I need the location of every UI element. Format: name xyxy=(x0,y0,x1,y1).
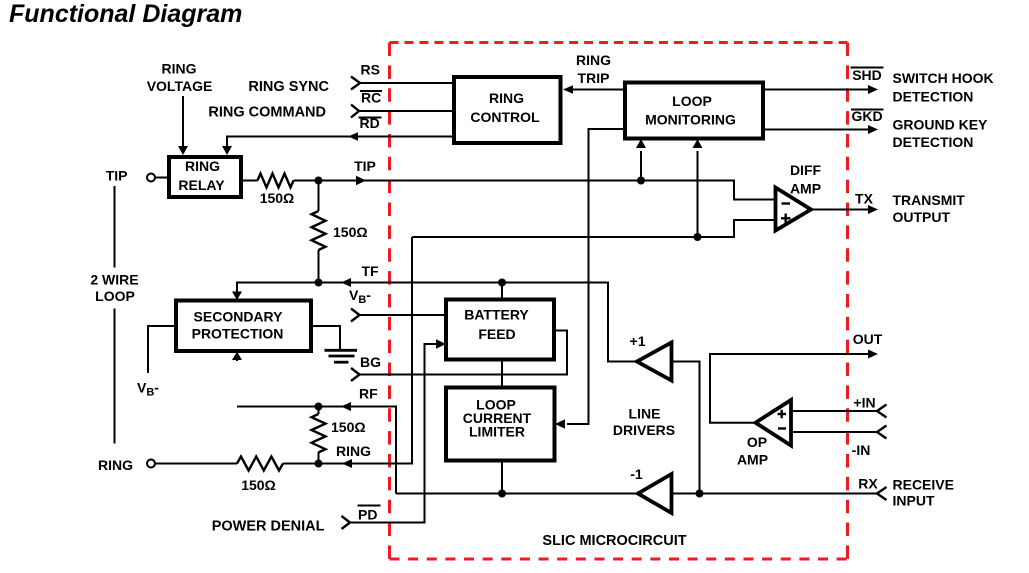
arrowhead tip sense into loop monitoring xyxy=(636,139,646,148)
block LOOP CURRENT LIMITER xyxy=(446,388,555,461)
wire tip sense up to loop monitoring xyxy=(640,151,642,181)
chevron RS input xyxy=(351,77,360,90)
svg-text:OUTPUT: OUTPUT xyxy=(893,209,951,225)
svg-text:150Ω: 150Ω xyxy=(260,190,295,206)
diff amp plus sign xyxy=(781,217,791,219)
svg-text:TRANSMIT: TRANSMIT xyxy=(893,192,966,208)
wire SHD output xyxy=(763,89,869,91)
chevron PD input xyxy=(342,516,351,529)
diff amp minus sign xyxy=(782,202,791,204)
arrowhead ring voltage into relay xyxy=(178,146,188,155)
svg-text:150Ω: 150Ω xyxy=(331,419,366,435)
arrowhead RF mid-wire xyxy=(341,402,351,411)
junction TF/battery feed xyxy=(498,279,506,287)
svg-text:LOOP: LOOP xyxy=(95,288,135,304)
junction ring sense/loop monitoring xyxy=(694,233,702,241)
wire RF line from -1 driver to secondary protection xyxy=(237,407,396,494)
svg-text:DETECTION: DETECTION xyxy=(893,134,974,150)
chevron RC input xyxy=(351,105,359,118)
wire loop monitoring to loop current limiter xyxy=(567,129,625,424)
arrowhead RD into relay xyxy=(222,146,232,155)
wire ring sense to diff amp plus input xyxy=(412,220,775,237)
overline RC xyxy=(360,90,382,92)
op-amp OP AMP xyxy=(756,400,792,446)
buffer -1 line driver xyxy=(638,474,672,513)
wire op amp -IN xyxy=(791,431,877,433)
overline GKD xyxy=(851,109,884,111)
wire stub RF shunt resistor to RING line xyxy=(318,407,320,464)
op-amp DIFF AMP xyxy=(776,188,812,231)
svg-text:RING: RING xyxy=(162,61,197,77)
junction TIP/shunt resistor xyxy=(315,177,323,185)
arrowhead TIP mid-wire xyxy=(356,176,366,186)
wire TIP line from relay through resistor to diff amp minus input xyxy=(242,181,776,200)
svg-text:LOOP: LOOP xyxy=(672,93,712,109)
svg-text:TRIP: TRIP xyxy=(578,70,610,86)
junction RING/shunt resistor xyxy=(315,460,323,468)
svg-text:RING: RING xyxy=(185,158,220,174)
arrowhead OUT xyxy=(868,350,878,359)
svg-text:VOLTAGE: VOLTAGE xyxy=(147,78,213,94)
svg-text:Functional Diagram: Functional Diagram xyxy=(9,0,242,28)
svg-text:RING: RING xyxy=(489,90,524,106)
wire TIP terminal to ring relay xyxy=(156,177,168,179)
chevron -IN input xyxy=(877,426,887,439)
svg-text:+1: +1 xyxy=(630,333,646,349)
svg-text:2 WIRE: 2 WIRE xyxy=(90,272,138,288)
chevron RX input xyxy=(877,487,887,500)
svg-text:FEED: FEED xyxy=(478,326,515,342)
arrowhead ring sense into loop monitoring xyxy=(693,139,703,148)
svg-text:AMP: AMP xyxy=(790,181,821,197)
svg-text:TIP: TIP xyxy=(106,168,128,184)
svg-text:OUT: OUT xyxy=(853,331,883,347)
svg-text:RING: RING xyxy=(576,52,611,68)
arrowhead RD mid-wire xyxy=(348,132,358,141)
ground symbol xyxy=(325,350,358,362)
op amp plus sign xyxy=(778,413,787,415)
svg-text:RF: RF xyxy=(359,386,378,402)
svg-text:CONTROL: CONTROL xyxy=(470,109,540,125)
chevron BG input xyxy=(351,368,360,381)
wire RX input line xyxy=(672,493,878,495)
junction RX/+1 driver xyxy=(696,490,704,498)
chevron +IN input xyxy=(877,405,887,418)
wire secondary protection right to ground xyxy=(311,326,340,349)
arrowhead into loop current limiter xyxy=(555,419,565,429)
svg-text:INPUT: INPUT xyxy=(893,493,935,509)
wire stub TF to battery feed top xyxy=(501,283,503,300)
junction TF/shunt resistor xyxy=(315,279,323,287)
block SECONDARY PROTECTION xyxy=(176,301,311,352)
svg-text:TIP: TIP xyxy=(354,158,376,174)
svg-text:RX: RX xyxy=(858,476,878,492)
overline RD xyxy=(359,117,382,119)
svg-text:RING: RING xyxy=(336,443,371,459)
svg-text:POWER DENIAL: POWER DENIAL xyxy=(212,519,325,535)
svg-text:SWITCH HOOK: SWITCH HOOK xyxy=(893,70,994,86)
wire ring voltage into ring relay xyxy=(182,96,184,150)
wire BG input around to battery feed right xyxy=(360,331,568,375)
svg-text:DRIVERS: DRIVERS xyxy=(613,422,675,438)
svg-text:RS: RS xyxy=(361,62,380,78)
svg-text:PD: PD xyxy=(358,507,377,523)
wire op amp output to OUT xyxy=(710,354,869,423)
svg-text:PROTECTION: PROTECTION xyxy=(192,326,284,342)
terminal RING xyxy=(147,460,155,468)
wire stub TIP to shunt resistor to TF xyxy=(318,181,320,283)
wire -1 driver output to RF corner xyxy=(396,493,638,495)
arrowhead TX output xyxy=(868,205,878,214)
svg-text:RING: RING xyxy=(98,457,133,473)
arrowhead PD into battery feed xyxy=(436,339,446,349)
svg-text:RELAY: RELAY xyxy=(178,177,225,193)
arrowhead TF into secondary protection xyxy=(232,292,242,301)
svg-text:GROUND KEY: GROUND KEY xyxy=(893,117,989,133)
SLIC microcircuit boundary (red dashed) xyxy=(390,43,848,560)
overline PD xyxy=(358,505,381,507)
junction RF/shunt resistor xyxy=(315,403,323,411)
svg-text:BATTERY: BATTERY xyxy=(464,307,529,323)
wire TF line to secondary protection and +1 driver tip xyxy=(237,283,637,362)
svg-text:-1: -1 xyxy=(630,466,643,482)
arrowhead TF mid-wire xyxy=(341,278,351,287)
svg-text:SHD: SHD xyxy=(852,67,882,83)
wire battery feed bottom to loop current limiter xyxy=(501,360,503,388)
resistor 150 ohm RING series xyxy=(237,457,283,471)
wire RD ring control to ring relay xyxy=(227,137,454,151)
wire 2 wire loop vertical lower xyxy=(114,309,116,444)
junction TIP/loop monitoring sense xyxy=(637,177,645,185)
svg-text:AMP: AMP xyxy=(737,452,768,468)
svg-text:RING COMMAND: RING COMMAND xyxy=(208,105,326,121)
resistor 150 ohm TIP-TF shunt xyxy=(312,211,326,250)
svg-text:SECONDARY: SECONDARY xyxy=(194,309,284,325)
svg-text:BG: BG xyxy=(360,354,381,370)
op amp minus sign xyxy=(778,427,786,429)
wire +1 driver base to RX line xyxy=(672,362,700,494)
wire RS input to ring control xyxy=(360,82,454,84)
svg-text:150Ω: 150Ω xyxy=(241,477,276,493)
terminal TIP xyxy=(147,174,155,182)
svg-text:DETECTION: DETECTION xyxy=(893,89,974,105)
arrowhead RF into secondary protection xyxy=(232,352,242,361)
block LOOP MONITORING xyxy=(625,83,763,139)
chevron VB- input xyxy=(351,309,360,322)
arrowhead SHD output xyxy=(868,85,878,94)
svg-text:150Ω: 150Ω xyxy=(333,224,368,240)
svg-text:RECEIVE: RECEIVE xyxy=(893,477,954,493)
wire VB- input to battery feed xyxy=(360,314,447,316)
block BATTERY FEED xyxy=(446,300,554,360)
svg-text:-IN: -IN xyxy=(852,442,871,458)
arrowhead RING mid-wire xyxy=(342,459,352,468)
wire PD input to battery feed xyxy=(350,344,437,523)
wire ring sense up to loop monitoring xyxy=(697,151,699,237)
arrowhead ring trip into ring control xyxy=(563,85,573,94)
svg-text:+IN: +IN xyxy=(853,395,875,411)
wire RING terminal through resistor up to diff amp plus line xyxy=(156,237,413,464)
svg-text:LINE: LINE xyxy=(629,406,661,422)
svg-text:TX: TX xyxy=(855,191,874,207)
wire loop current limiter bottom stub xyxy=(501,461,503,494)
wire RC input to ring control xyxy=(359,110,454,112)
wire ring trip loop monitoring to ring control xyxy=(572,89,625,91)
svg-text:MONITORING: MONITORING xyxy=(645,112,736,128)
block RING CONTROL xyxy=(454,77,561,143)
svg-text:SLIC MICROCIRCUIT: SLIC MICROCIRCUIT xyxy=(542,533,686,549)
resistor 150 ohm RF-RING shunt xyxy=(312,414,326,452)
resistor 150 ohm TIP series xyxy=(258,174,294,188)
svg-text:DIFF: DIFF xyxy=(790,162,822,178)
svg-text:TF: TF xyxy=(361,263,379,279)
block RING RELAY xyxy=(169,157,241,197)
wire op amp +IN xyxy=(791,410,877,412)
wire GKD output xyxy=(763,129,869,131)
svg-text:RING SYNC: RING SYNC xyxy=(248,79,329,95)
wire TX output from diff amp xyxy=(811,209,869,211)
wire secondary protection left to VB- xyxy=(148,326,176,373)
svg-text:LIMITER: LIMITER xyxy=(469,424,525,440)
buffer +1 line driver xyxy=(637,343,672,381)
overline SHD xyxy=(851,67,884,69)
wire 2 wire loop vertical upper xyxy=(114,186,116,268)
svg-text:OP: OP xyxy=(747,434,767,450)
arrowhead GKD output xyxy=(868,125,878,134)
junction RX/loop current limiter xyxy=(498,490,506,498)
